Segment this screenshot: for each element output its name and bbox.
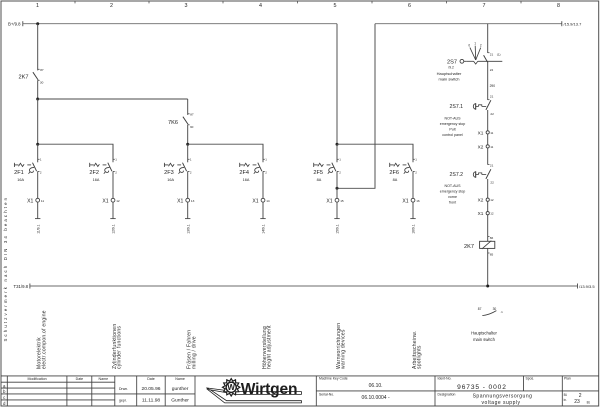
svg-text:vorne: vorne [448, 195, 457, 199]
left border note Schutzvermerk [3, 196, 8, 342]
svg-text:11: 11 [490, 131, 493, 135]
svg-text:spotlights: spotlights [417, 345, 423, 369]
svg-text:2F5: 2F5 [313, 170, 323, 176]
title block drawn checked rows [119, 386, 189, 403]
wire 7K6 output to junction [187, 125, 189, 144]
label Hauptschalter main switch for 2S7 [437, 71, 462, 82]
title block revision row letters [3, 383, 6, 406]
circuit breaker 2F2 [89, 144, 117, 182]
title block designation [438, 392, 533, 406]
svg-text:Wirtgen: Wirtgen [241, 381, 297, 398]
Wirtgen logo gear [223, 379, 240, 396]
svg-text:22: 22 [490, 112, 494, 116]
svg-text:16A: 16A [243, 178, 250, 182]
wire horizontal feed to 2F4 [188, 144, 263, 159]
Wirtgen logo swoosh [207, 388, 302, 403]
svg-text:1: 1 [474, 42, 476, 46]
svg-text:1: 1 [36, 3, 39, 9]
title block ident number [438, 377, 571, 392]
terminal X1:15 under 2F5 [326, 198, 344, 204]
Wirtgen logo wordmark [241, 381, 297, 398]
svg-text:2F3: 2F3 [164, 170, 174, 176]
junction dot column 5 breaker row [336, 143, 339, 146]
svg-text:2: 2 [480, 43, 482, 47]
svg-text:X1: X1 [252, 198, 258, 204]
main switch 2S7 [447, 42, 502, 72]
svg-text:voltage supply: voltage supply [482, 400, 521, 406]
svg-text:Designation: Designation [438, 392, 456, 396]
node label Hoehenverstellung column 4 [262, 325, 273, 369]
svg-text:Schutzvermerk nach DIN 34 beac: Schutzvermerk nach DIN 34 beachten [3, 196, 8, 342]
svg-text:Serial-No.: Serial-No. [319, 392, 334, 396]
wire bus drop at column 5 [336, 24, 338, 145]
svg-text:/13.9/3.5: /13.9/3.5 [579, 284, 595, 289]
title block machine key code [319, 377, 390, 401]
svg-text:30: 30 [493, 307, 497, 311]
svg-text:7K6: 7K6 [168, 120, 178, 126]
svg-text:X1: X1 [478, 211, 484, 216]
svg-text:Plan: Plan [564, 377, 571, 381]
label NOT-AUS emergency stop vorne front [440, 184, 466, 204]
svg-text:emergency stop: emergency stop [440, 122, 466, 126]
svg-text:.1: .1 [500, 310, 503, 314]
wire right bus drop to node below 2F5 [337, 24, 375, 189]
svg-text:Modification: Modification [28, 377, 47, 381]
node T31/9.8 bottom bus label [14, 284, 30, 289]
title block sheet numbers [564, 393, 591, 405]
svg-text:NOT-AUS: NOT-AUS [445, 117, 462, 121]
svg-text:06.10.: 06.10. [369, 383, 383, 389]
svg-text:control panel: control panel [442, 133, 463, 137]
junction dot breaker row column 1 [36, 143, 39, 146]
svg-text:Hauptschalter: Hauptschalter [437, 71, 462, 76]
column numbers 1-8 [36, 3, 560, 9]
svg-text:Pult: Pult [449, 127, 455, 131]
wire top supply bus right segment [375, 23, 562, 25]
node label Motorelektrik column 1 [37, 310, 48, 369]
svg-text:14/9.1: 14/9.1 [262, 224, 266, 234]
circuit breaker 2F6 [389, 144, 417, 182]
svg-text:/9.2: /9.2 [448, 65, 454, 69]
circuit breaker 2F4 [239, 144, 267, 182]
wire 2F2 output down to terminal [112, 171, 114, 198]
svg-text:2K7: 2K7 [464, 244, 474, 250]
relay contact 2K7 [19, 68, 44, 85]
svg-text:X1: X1 [402, 198, 408, 204]
junction dot below 2F5 [336, 187, 339, 190]
circuit breaker 2F1 [14, 144, 42, 182]
svg-text:12: 12 [490, 212, 494, 216]
junction dot at bus column 1 [36, 22, 39, 25]
svg-text:B+/9.8: B+/9.8 [8, 21, 21, 26]
node /13.9/3.5 bottom bus right reference [578, 284, 596, 289]
relay contact 7K6 [168, 99, 194, 129]
svg-text:main switch: main switch [439, 76, 460, 81]
svg-text:Date: Date [76, 377, 84, 381]
svg-text:Spannungsversorgung: Spannungsversorgung [473, 394, 533, 400]
wire 2F5 output down to terminal [336, 171, 338, 198]
svg-text:(1): (1) [497, 52, 501, 56]
svg-text:X1: X1 [478, 130, 484, 135]
svg-text:main switch: main switch [473, 337, 496, 342]
node B+/9.8 top supply bus label [8, 21, 23, 26]
node label Warnvorrichtungen column 5 [336, 323, 347, 369]
svg-text:0: 0 [468, 43, 470, 47]
svg-text:16/9.1: 16/9.1 [412, 224, 416, 234]
terminal X1:11 in e-stop chain [478, 130, 494, 135]
svg-text:2F1: 2F1 [14, 170, 24, 176]
relay coil 2K7 [464, 236, 495, 256]
svg-text:X1: X1 [102, 198, 108, 204]
wire horizontal feed to 7K6 [38, 98, 188, 100]
terminal X1:12 in e-stop chain [478, 211, 494, 216]
circuit breaker 2F3 [164, 144, 192, 182]
svg-text:/15.9/13.7: /15.9/13.7 [564, 21, 583, 26]
contact cross-reference for 2K7 [478, 307, 503, 316]
node label Arbeitsscheinw column 6 [412, 331, 423, 370]
svg-text:290: 290 [490, 84, 496, 88]
svg-text:Ident-No.: Ident-No. [438, 377, 452, 381]
wire below terminal X1:12 with end tick [110, 202, 115, 234]
svg-text:cylinder functions: cylinder functions [117, 326, 123, 369]
svg-text:16A: 16A [93, 178, 100, 182]
svg-text:20.05.96: 20.05.96 [141, 386, 160, 392]
svg-text:12: 12 [490, 198, 494, 202]
svg-text:in.: in. [564, 398, 567, 402]
svg-text:87: 87 [478, 307, 482, 311]
svg-text:Name: Name [175, 377, 185, 381]
node label Fraesen Fahren column 3 [187, 330, 198, 369]
svg-text:15: 15 [340, 199, 344, 203]
wire down column 1 to breaker row node [37, 99, 39, 144]
svg-text:16A: 16A [17, 178, 24, 182]
svg-text:8A: 8A [317, 178, 322, 182]
terminal X1:12 under 2F2 [102, 198, 120, 204]
svg-text:2F6: 2F6 [389, 170, 399, 176]
wire horizontal feed to 2F6 [337, 144, 413, 159]
wire 2F4 output down to terminal [262, 171, 264, 198]
wire 2S7 to 2S7.1 with wire number 290 [488, 63, 496, 100]
node label Zylinderfunktionen column 2 [112, 324, 123, 369]
svg-text:87: 87 [40, 68, 44, 72]
svg-text:X1: X1 [177, 198, 183, 204]
svg-text:96735 - 0002: 96735 - 0002 [457, 384, 507, 391]
svg-text:gepr.: gepr. [119, 398, 127, 402]
svg-text:X1: X1 [27, 198, 33, 204]
junction dot 7K6 output [186, 143, 189, 146]
wire 2F3 output down to terminal [187, 171, 189, 198]
wire below terminal X1:15 with end tick [334, 202, 339, 234]
wire below terminal X1:13 with end tick [185, 202, 190, 234]
wire right bus drop to main switch chain [487, 24, 489, 53]
wire 2K7 output down to distribution node [37, 80, 39, 99]
svg-text:2K7: 2K7 [19, 75, 29, 81]
svg-text:X2: X2 [478, 144, 484, 149]
svg-text:NOT-AUS: NOT-AUS [445, 184, 462, 188]
svg-text:milling / drive: milling / drive [191, 336, 197, 369]
emergency stop button 2S7.1 [450, 95, 495, 116]
circuit breaker 2F5 [313, 144, 341, 182]
terminal X1:13 under 2F3 [177, 198, 195, 204]
svg-text:87: 87 [190, 113, 194, 117]
svg-text:13: 13 [191, 199, 195, 203]
svg-text:Drwn.: Drwn. [119, 387, 128, 391]
wire from bus down to relay contact 2K7 [37, 24, 39, 71]
wire 2S7.2 to relay coil [487, 179, 489, 241]
wire below terminal X1:16 with end tick [410, 202, 415, 234]
svg-text:2F4: 2F4 [239, 170, 249, 176]
svg-text:23: 23 [574, 399, 580, 405]
wire 2F6 output down to terminal [412, 171, 414, 198]
svg-text:2S7.1: 2S7.1 [450, 104, 464, 110]
svg-text:14: 14 [266, 199, 270, 203]
svg-text:Gunther: Gunther [171, 398, 189, 404]
wire below terminal X1:11 with end tick [35, 202, 40, 234]
svg-text:21: 21 [490, 53, 494, 57]
svg-text:21: 21 [490, 164, 494, 168]
terminal X2:12 in e-stop chain [478, 198, 494, 203]
terminal X1:14 under 2F4 [252, 198, 270, 204]
svg-text:8A: 8A [393, 178, 398, 182]
svg-text:6: 6 [408, 3, 411, 9]
svg-text:11: 11 [490, 145, 493, 149]
wire below terminal X1:14 with end tick [260, 202, 265, 234]
svg-text:T31/9.8: T31/9.8 [14, 284, 29, 289]
svg-text:W: W [227, 383, 235, 392]
svg-text:86: 86 [490, 236, 494, 240]
column index ticks on top border [75, 1, 521, 3]
wire bottom T31 bus [30, 285, 578, 287]
svg-text:8: 8 [557, 3, 560, 9]
svg-text:Machine Key Code: Machine Key Code [319, 377, 348, 381]
terminal X2:11 in e-stop chain [478, 144, 494, 149]
svg-text:11/9.1: 11/9.1 [36, 225, 40, 234]
svg-text:21: 21 [490, 95, 494, 99]
svg-text:15/9.1: 15/9.1 [336, 224, 340, 234]
svg-text:16: 16 [416, 199, 420, 203]
svg-text:16A: 16A [167, 178, 174, 182]
svg-text:X1: X1 [326, 198, 332, 204]
svg-text:5: 5 [334, 3, 337, 9]
svg-text:11.11.98: 11.11.98 [142, 398, 161, 404]
svg-text:2: 2 [110, 3, 113, 9]
terminal X1:11 under 2F1 [27, 198, 44, 204]
svg-text:2F2: 2F2 [89, 170, 99, 176]
svg-text:Name: Name [99, 377, 109, 381]
svg-text:Bl.: Bl. [564, 393, 568, 397]
wire top supply bus left segment [23, 23, 337, 25]
svg-text:30: 30 [190, 125, 194, 129]
wire 2S7.1 to X1 terminal [487, 110, 489, 165]
svg-text:12/9.1: 12/9.1 [112, 224, 116, 234]
title block header texts [28, 377, 185, 381]
junction dot 2K7 output [36, 98, 39, 101]
svg-text:12: 12 [116, 199, 120, 203]
svg-text:13/9.1: 13/9.1 [186, 224, 190, 234]
svg-text:22: 22 [490, 181, 494, 185]
svg-text:Bl.: Bl. [587, 401, 591, 405]
svg-text:Spos.: Spos. [526, 377, 535, 381]
svg-text:06.10.0004 -: 06.10.0004 - [362, 395, 390, 401]
svg-text:Date: Date [147, 377, 155, 381]
node /15.9/13.7 right bus reference [562, 21, 582, 26]
svg-text:warning devices: warning devices [341, 329, 347, 369]
svg-text:85: 85 [490, 252, 494, 256]
wire 2F1 output down to terminal [37, 171, 39, 198]
label Hauptschalter main switch footer [471, 331, 497, 342]
title block grid [1, 376, 599, 406]
svg-text:height adjustment: height adjustment [267, 325, 273, 369]
svg-text:emergency stop: emergency stop [440, 190, 466, 194]
svg-text:2S7.2: 2S7.2 [450, 172, 464, 178]
svg-text:gunther: gunther [172, 386, 189, 392]
svg-text:Hauptschalter: Hauptschalter [471, 331, 497, 336]
wire relay coil to bottom bus [487, 248, 489, 286]
svg-text:30: 30 [40, 81, 44, 85]
label NOT-AUS emergency stop Pult control panel [440, 117, 466, 137]
svg-text:4: 4 [259, 3, 262, 9]
emergency stop button 2S7.2 [450, 164, 495, 185]
svg-text:11: 11 [41, 199, 44, 203]
wire horizontal feed to 2F2 [38, 144, 113, 159]
svg-text:7: 7 [483, 3, 486, 9]
svg-text:22: 22 [490, 68, 494, 72]
svg-text:X2: X2 [478, 198, 484, 203]
svg-text:front: front [449, 200, 456, 204]
junction dot on bottom bus [486, 285, 489, 288]
svg-text:electr.compon.of engine: electr.compon.of engine [41, 310, 47, 369]
svg-text:3: 3 [185, 3, 188, 9]
terminal X1:16 under 2F6 [402, 198, 420, 204]
